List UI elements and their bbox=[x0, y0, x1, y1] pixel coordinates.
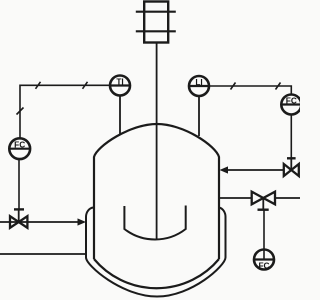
product outlet pipe right bbox=[219, 197, 300, 199]
signal tick 4 bbox=[231, 83, 236, 90]
valve V2 actuator bar bbox=[287, 157, 296, 159]
valve V3 stem bbox=[262, 198, 264, 210]
valve V1 body bbox=[10, 216, 27, 228]
FC right output line to valve V2 bbox=[290, 115, 292, 159]
FC left output line to valve bbox=[18, 159, 20, 209]
instrument LI bubble bbox=[189, 76, 209, 96]
valve V2 body bbox=[284, 164, 299, 176]
valve V2 stem bbox=[290, 158, 292, 170]
cooling jacket bbox=[86, 208, 226, 297]
feed pipe into jacket bbox=[0, 221, 79, 223]
svg-text:FC: FC bbox=[286, 95, 297, 105]
valve V3 body bbox=[252, 192, 275, 205]
signal line valve V3 to FC bottom bbox=[263, 210, 265, 260]
svg-text:LI: LI bbox=[195, 77, 202, 87]
signal line LI to FC right bbox=[209, 86, 291, 94]
agitator motor M1 bbox=[136, 2, 176, 43]
signal tick 5 bbox=[276, 83, 281, 90]
signal tick 3 bbox=[17, 108, 24, 115]
arrow into vessel bbox=[220, 166, 229, 173]
arrow into jacket bbox=[78, 218, 87, 225]
valve V1 stem bbox=[18, 209, 20, 222]
svg-text:FC: FC bbox=[14, 140, 25, 150]
vessel bottom dished head bbox=[94, 259, 219, 288]
signal tick 2 bbox=[83, 82, 88, 89]
LI tap line to vessel top bbox=[198, 96, 200, 136]
instrument TI bubble bbox=[110, 76, 130, 96]
svg-text:TI: TI bbox=[116, 76, 123, 86]
svg-text:FC: FC bbox=[258, 261, 269, 271]
jacket return pipe bbox=[0, 253, 86, 255]
controller FC right bubble bbox=[281, 95, 301, 115]
signal tick 1 bbox=[36, 82, 41, 89]
valve V3 actuator bar bbox=[258, 208, 269, 210]
feed pipe into vessel top right bbox=[227, 169, 284, 171]
TI tap line to vessel top bbox=[119, 96, 121, 135]
controller FC bottom bubble bbox=[254, 250, 274, 271]
controller FC left bubble bbox=[9, 138, 30, 159]
agitator shaft bbox=[156, 43, 158, 241]
vessel V-1 shell bbox=[94, 124, 219, 259]
valve V1 actuator bar bbox=[14, 208, 24, 210]
signal line TI to FC left bbox=[20, 85, 110, 138]
agitator anchor impeller bbox=[124, 206, 185, 240]
